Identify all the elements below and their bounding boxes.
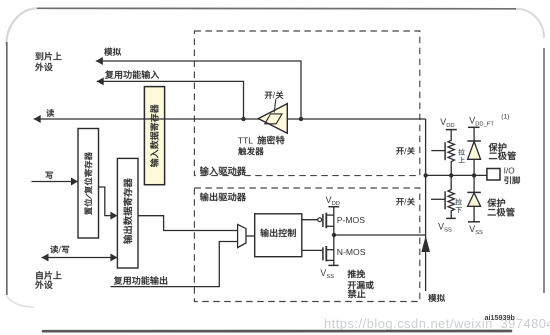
pmos stub bottom [326, 225, 334, 227]
label VSS mos [320, 268, 334, 280]
arrowhead rw left [42, 254, 49, 262]
diode1 wire bottom [473, 159, 475, 175]
watermark url text [324, 316, 550, 331]
label 写 write [46, 172, 53, 179]
label 输出数据寄存器 (rotated) [123, 178, 132, 243]
frame top-right rounded corner arc [516, 9, 544, 38]
arrowhead af-input left [97, 77, 104, 85]
pin horizontal line [426, 174, 487, 176]
vddft tick [468, 126, 480, 128]
label 二极管 top [489, 151, 516, 160]
wire analog to peripherals [96, 61, 301, 119]
diode2 wire bottom [473, 206, 475, 222]
arrowhead read left [34, 115, 41, 123]
label 模拟 (bottom) [428, 294, 445, 302]
svg-text:P-MOS: P-MOS [337, 215, 365, 225]
label 二极管 bottom [488, 208, 515, 217]
diode1 wire top [473, 127, 475, 141]
label 置位/复位寄存器 (rotated) [84, 152, 92, 215]
svg-text:https://blog.csdn.net/weixin_3: https://blog.csdn.net/weixin_39748042 [324, 316, 550, 331]
svg-text:I/O: I/O [504, 165, 516, 175]
label 开/关 pulldown [396, 197, 415, 207]
svg-text:TTL: TTL [238, 135, 253, 145]
svg-text:SS: SS [444, 228, 452, 234]
label 读/写 read-write [50, 245, 69, 255]
junction dot diode column [472, 173, 476, 177]
arrowhead write right [71, 178, 78, 186]
output control box [255, 214, 302, 257]
junction dot schmitt output [241, 117, 245, 121]
frame top-left rounded corner arc [6, 8, 37, 45]
label 开漏或 [348, 281, 374, 289]
wire mux to output control [246, 235, 255, 237]
protection diode 1 [468, 142, 481, 160]
mos rail vertical [333, 207, 335, 266]
arrowhead analog left [96, 57, 103, 65]
pull-up switch bar [444, 142, 446, 160]
mux trapezoid [238, 224, 246, 247]
diode2 wire top [473, 175, 475, 192]
label VDD pullup [440, 117, 454, 129]
label 输出驱动器 output driver [200, 193, 246, 202]
wire odr to mux [138, 216, 238, 231]
nmos stub bottom [326, 259, 334, 261]
diode2 cathode bar [467, 191, 481, 193]
wire read line [34, 118, 426, 120]
analog up arrowhead [421, 236, 430, 252]
input driver dashed box [194, 31, 419, 176]
label 保护 top [489, 143, 507, 152]
arrowhead rw right [110, 254, 117, 262]
vdd supply tick [328, 206, 339, 208]
label 自片上外设 line1 [36, 271, 61, 279]
label 自片上外设 line2 [35, 281, 52, 289]
label 到片上外设 line2 [35, 63, 52, 71]
svg-text:DD: DD [446, 123, 454, 129]
pull-up resistor [448, 130, 454, 176]
schmitt trigger triangle [258, 104, 287, 134]
junction dot mos drain [332, 233, 336, 237]
output driver dashed box [194, 188, 419, 302]
vdd tick pullup [446, 129, 457, 131]
pull-down resistor [448, 175, 454, 218]
label 输入驱动器 input driver [200, 166, 246, 175]
schmitt hysteresis symbol [265, 114, 282, 124]
junction dot schmitt input [299, 117, 303, 121]
label 复用功能输入 [105, 70, 159, 79]
nmos gate bar [322, 247, 324, 260]
label ai15939b [485, 313, 516, 322]
label 拉下 (vertical) [455, 199, 461, 213]
wire write line [31, 181, 78, 183]
junction dot pullup column [449, 173, 453, 177]
label VDD_FT [469, 114, 509, 128]
pull-up switch gate line [431, 150, 445, 152]
label 开/关 schmitt [265, 90, 284, 100]
svg-text:ai15939b: ai15939b [485, 313, 516, 322]
label VSS diode [469, 224, 483, 236]
vss tick diode2 [468, 221, 480, 223]
nmos stub top [326, 249, 334, 251]
label 触发器 [238, 147, 263, 155]
label 施密特 [257, 136, 284, 145]
svg-text:N-MOS: N-MOS [337, 247, 366, 257]
arrowhead sr-odr right [110, 212, 117, 220]
frame right border line [543, 48, 545, 293]
svg-text:SS: SS [326, 274, 334, 280]
pmos gate bubble [318, 218, 322, 222]
nmos channel bar [325, 246, 327, 261]
label VSS pulldown [438, 222, 452, 234]
label 开/关 pullup [396, 146, 415, 156]
io pin square [487, 169, 500, 181]
input data register box (yellow) [144, 87, 164, 185]
pmos gate bar [322, 214, 324, 227]
main vertical pin column [425, 119, 427, 291]
frame bottom-left corner arc [7, 295, 34, 307]
label 模拟 (top) [104, 48, 121, 56]
wire oc to pmos gate [302, 219, 318, 221]
wire oc to nmos gate [302, 249, 323, 251]
protection diode 2 [468, 193, 481, 206]
label 引脚 [504, 176, 520, 184]
junction dot pin-column [424, 173, 428, 177]
label P-MOS [337, 215, 365, 225]
vss supply tick [328, 264, 338, 266]
wire alternate function output [111, 242, 238, 287]
pull-down switch gate line [431, 198, 445, 200]
label N-MOS [337, 247, 366, 257]
label 复用功能输出 [114, 276, 167, 285]
diode1 cathode bar [467, 140, 481, 142]
wire output to pin column [334, 234, 426, 236]
label 到片上外设 line1 [35, 52, 61, 60]
bit set/reset register box [78, 129, 99, 239]
label 保护 bottom [487, 198, 505, 207]
wire read/write line [42, 257, 118, 259]
label 推挽 [348, 270, 366, 278]
label I/O [504, 165, 516, 175]
pointer line on/off to schmitt [274, 99, 276, 112]
label 禁止 [348, 290, 366, 299]
label 读 read [46, 109, 54, 117]
pull-down switch bar [444, 191, 446, 209]
pmos channel bar [325, 213, 327, 229]
label TTL [238, 135, 253, 145]
vss tick pulldown [446, 217, 456, 219]
wire set/reset to odr [99, 187, 112, 216]
frame top border line [37, 7, 516, 10]
frame left border line [6, 42, 8, 295]
pmos stub top [326, 214, 334, 216]
wire alternate function input [97, 81, 244, 119]
bottom separator bar [43, 330, 511, 333]
label 输入数据寄存器 (rotated) [150, 105, 158, 167]
label VDD pmos [326, 195, 340, 207]
label 拉上 (vertical) [458, 149, 464, 163]
svg-text:(1): (1) [501, 114, 509, 121]
svg-text:SS: SS [475, 230, 483, 236]
label 输出控制 [260, 229, 295, 237]
output data register box [117, 158, 138, 268]
